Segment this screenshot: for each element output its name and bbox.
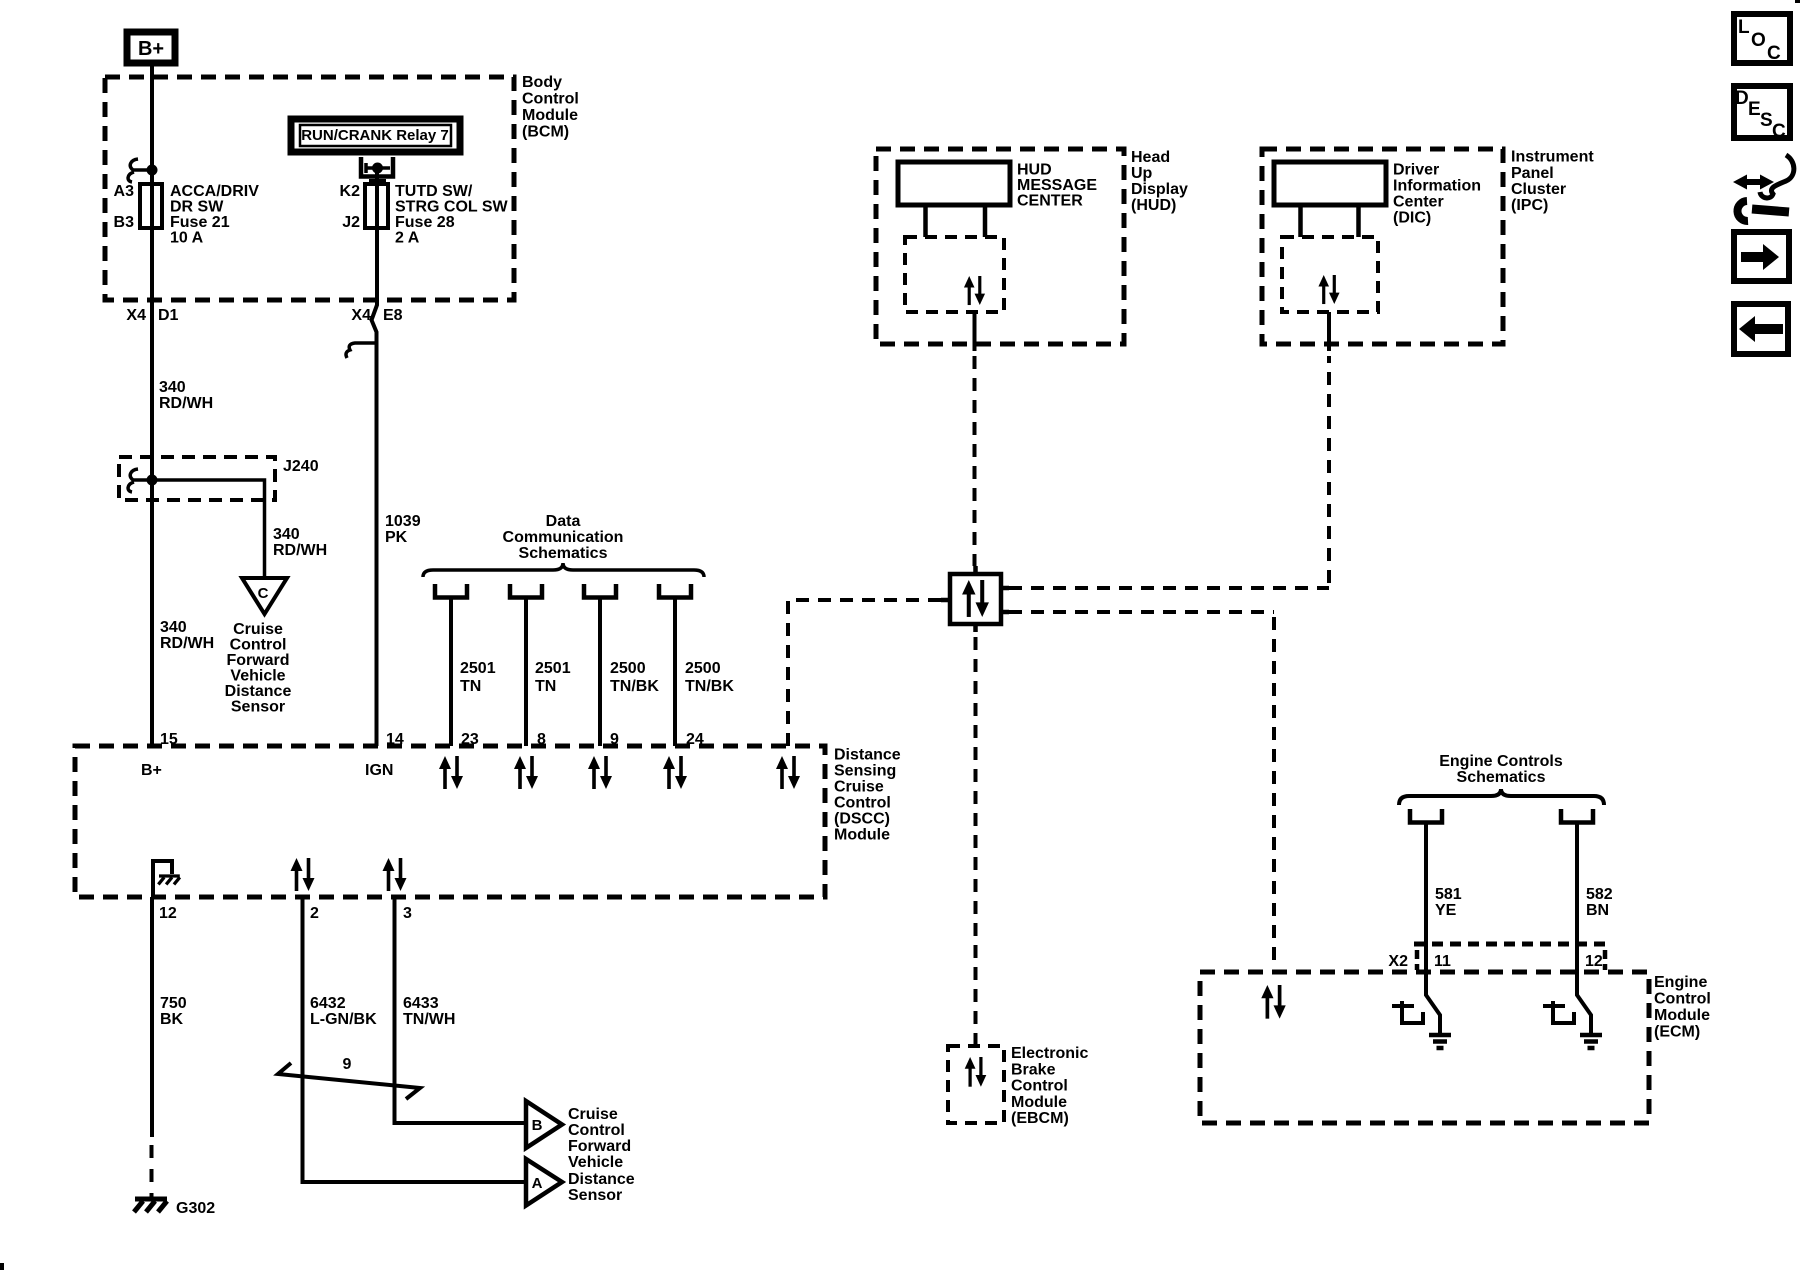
svg-text:Data: Data [546, 513, 581, 530]
svg-text:9: 9 [343, 1056, 352, 1073]
wire label 2500 TN/BK (2) [685, 660, 734, 695]
svg-text:Cruise: Cruise [233, 621, 283, 638]
svg-text:Forward: Forward [226, 652, 289, 669]
svg-text:Brake: Brake [1011, 1061, 1056, 1078]
svg-text:750: 750 [160, 995, 187, 1012]
svg-text:O: O [1751, 30, 1766, 51]
label: Cruise Control Forward Vehicle Distance Sensor (A/B) [568, 1106, 635, 1204]
relay contact symbol under RUN/CRANK relay [361, 157, 393, 181]
off-page connector A triangle [526, 1159, 562, 1206]
stub curl below X4/E8 [346, 343, 375, 358]
svg-text:12: 12 [159, 905, 177, 922]
svg-text:Head: Head [1131, 149, 1170, 166]
svg-text:Up: Up [1131, 165, 1153, 182]
svg-text:Control: Control [568, 1122, 625, 1139]
svg-text:Control: Control [522, 91, 579, 108]
wire 581 YE [1426, 824, 1440, 1033]
svg-text:(BCM): (BCM) [522, 124, 569, 141]
module box: Distance Sensing Cruise Control (DSCC) Module [75, 746, 825, 897]
wire label 582 BN [1586, 886, 1613, 919]
svg-text:X4: X4 [351, 307, 371, 324]
svg-text:DR SW: DR SW [170, 199, 224, 216]
wire label 750 BK [160, 995, 187, 1028]
svg-text:Module: Module [834, 827, 890, 844]
svg-text:A: A [532, 1175, 543, 1192]
svg-text:Instrument: Instrument [1511, 149, 1594, 166]
wire 2501 TN (pin 23) [449, 599, 453, 746]
junction dot node (152,170) [147, 165, 158, 176]
label: Distance Sensing Cruise Control (DSCC) Module [834, 747, 901, 844]
wire label 2500 TN/BK (1) [610, 660, 659, 695]
svg-text:A3: A3 [114, 183, 135, 200]
svg-text:ACCA/DRIV: ACCA/DRIV [170, 183, 259, 200]
serial data arrows ECM [1261, 985, 1285, 1019]
svg-text:C: C [1767, 43, 1781, 64]
wire 2500 TN/BK (pin 9) [598, 599, 602, 746]
svg-text:IGN: IGN [365, 762, 393, 779]
svg-text:Display: Display [1131, 181, 1188, 198]
svg-text:HUD: HUD [1017, 162, 1052, 179]
label: Engine Control Module (ECM) [1654, 974, 1711, 1041]
svg-text:Distance: Distance [834, 747, 901, 764]
svg-text:(EBCM): (EBCM) [1011, 1110, 1069, 1127]
power terminal B+ [127, 32, 175, 63]
ECM internal ground pin 12 [1580, 1035, 1602, 1048]
wire label 1039 PK [385, 513, 421, 546]
wire: HUD serial data lead [973, 312, 977, 351]
DIC connector dashed box [1282, 237, 1378, 312]
svg-text:Control: Control [1654, 991, 1711, 1008]
svg-text:Panel: Panel [1511, 165, 1554, 182]
svg-text:Forward: Forward [568, 1138, 631, 1155]
module box: Electronic Brake Control Module (EBCM) [948, 1046, 1004, 1123]
label: Driver Information Center (DIC) [1393, 162, 1481, 227]
svg-text:BK: BK [160, 1011, 184, 1028]
svg-text:X4: X4 [126, 307, 146, 324]
wire label 2501 TN (1) [460, 660, 496, 695]
svg-text:L-GN/BK: L-GN/BK [310, 1011, 377, 1028]
svg-text:2500: 2500 [685, 660, 721, 677]
svg-text:STRG COL SW: STRG COL SW [395, 199, 508, 216]
svg-text:(ECM): (ECM) [1654, 1024, 1700, 1041]
wire label 340 RD/WH (branch) [273, 526, 327, 559]
wire label 6433 TN/WH [403, 995, 455, 1028]
module box: Head Up Display (HUD) [876, 149, 1124, 344]
svg-text:Fuse 28: Fuse 28 [395, 214, 455, 231]
svg-text:TN/WH: TN/WH [403, 1011, 455, 1028]
serial data arrows pin 3 [383, 858, 407, 891]
svg-text:2500: 2500 [610, 660, 646, 677]
junction dot node J240 (152,480) [147, 475, 158, 486]
svg-text:Schematics: Schematics [1457, 769, 1546, 786]
module box: Engine Control Module (ECM) [1200, 972, 1649, 1123]
svg-text:X2: X2 [1388, 953, 1408, 970]
svg-text:340: 340 [273, 526, 300, 543]
wire: battery feed 340 circuit (x=152) [150, 66, 154, 746]
svg-text:RD/WH: RD/WH [160, 635, 214, 652]
serial data arrows pin 2 [291, 858, 315, 891]
wire 6433 TN/WH (pin 3 to connector B) [395, 897, 527, 1123]
svg-text:Module: Module [1011, 1094, 1067, 1111]
page speck top-right [1795, 0, 1800, 3]
svg-text:E8: E8 [383, 307, 403, 324]
connector stub 2 (pin 8) [510, 584, 542, 598]
ECM internal clip at pin 12 [1543, 1001, 1574, 1023]
svg-text:Center: Center [1393, 194, 1444, 211]
relay: RUN/CRANK Relay 7 [291, 119, 460, 152]
svg-text:Distance: Distance [225, 683, 292, 700]
HUD display pedestal [926, 205, 986, 237]
HUD connector dashed box [905, 237, 1004, 312]
serial data arrows pin 9 [588, 756, 612, 789]
svg-text:2501: 2501 [535, 660, 571, 677]
ECM internal clip at pin 11 [1392, 1001, 1423, 1023]
label: Body Control Module (BCM) [522, 74, 579, 141]
svg-text:Electronic: Electronic [1011, 1045, 1088, 1062]
svg-text:B3: B3 [114, 214, 135, 231]
connector stub 581 [1410, 809, 1442, 823]
connector X4 pin D1 labels [126, 307, 178, 324]
DIC display block [1274, 162, 1386, 205]
connector stub 3 (pin 9) [584, 584, 616, 598]
fuse F21 ACCA/DRIV DR SW Fuse 21 10A [140, 184, 162, 228]
wire label 340 RD/WH (upper) [159, 379, 213, 412]
svg-text:Vehicle: Vehicle [568, 1154, 623, 1171]
serial data arrows EBCM [965, 1057, 987, 1087]
svg-text:2 A: 2 A [395, 230, 420, 247]
svg-text:Sensor: Sensor [568, 1187, 622, 1204]
label: Engine Controls Schematics [1439, 753, 1563, 786]
wire: branch to connector C [152, 480, 265, 578]
serial data junction box [950, 574, 1001, 624]
connector X2 row [1414, 944, 1609, 970]
svg-text:J2: J2 [342, 214, 360, 231]
svg-text:B: B [532, 1117, 543, 1134]
svg-text:Cluster: Cluster [1511, 181, 1566, 198]
wire: DIC serial data lead [1327, 312, 1331, 351]
nav icon: diagnostic squiggle [1733, 155, 1794, 221]
wire label 340 RD/WH (lower) [160, 619, 214, 652]
svg-text:TUTD SW/: TUTD SW/ [395, 183, 473, 200]
wire label 2501 TN (2) [535, 660, 571, 695]
svg-text:10 A: 10 A [170, 230, 204, 247]
nav icon: next arrow box [1734, 232, 1789, 281]
HUD message center display block [898, 162, 1010, 205]
svg-text:340: 340 [159, 379, 186, 396]
svg-text:Body: Body [522, 74, 562, 91]
relay contact dot [372, 163, 383, 174]
wire label 581 YE [1435, 886, 1462, 919]
connector X4 pin E8 labels [351, 307, 402, 324]
module box: Body Control Module (BCM) [105, 77, 514, 300]
brace: engine controls schematics group [1399, 789, 1604, 805]
svg-text:(DSCC): (DSCC) [834, 811, 890, 828]
module box: Instrument Panel Cluster (IPC) [1262, 149, 1503, 344]
twisted pair marker 9 [278, 1063, 420, 1099]
svg-text:1039: 1039 [385, 513, 421, 530]
svg-text:Control: Control [230, 637, 287, 654]
svg-text:D: D [1735, 88, 1749, 109]
svg-text:Cruise: Cruise [568, 1106, 618, 1123]
svg-text:Module: Module [1654, 1007, 1710, 1024]
ground G302 [134, 1199, 167, 1212]
page speck bottom-left [0, 1263, 4, 1270]
serial data arrows pin 8 [514, 756, 538, 789]
svg-text:12: 12 [1585, 953, 1603, 970]
nav icon: LOC box [1734, 14, 1790, 64]
svg-text:Fuse 21: Fuse 21 [170, 214, 230, 231]
serial data arrows HUD [964, 276, 985, 305]
svg-text:B+: B+ [141, 762, 162, 779]
svg-text:D1: D1 [158, 307, 179, 324]
svg-text:K2: K2 [340, 183, 361, 200]
svg-text:(IPC): (IPC) [1511, 197, 1548, 214]
svg-text:C: C [258, 585, 269, 602]
connector stub 4 (pin 24) [659, 584, 691, 598]
junction curl at J240 [128, 469, 150, 492]
svg-text:CENTER: CENTER [1017, 193, 1083, 210]
svg-text:582: 582 [1586, 886, 1613, 903]
wire 750 BK (x=152) [150, 897, 154, 1137]
ECM internal ground pin 11 [1429, 1035, 1451, 1048]
label: Data Communication Schematics [503, 513, 624, 562]
svg-text:BN: BN [1586, 902, 1609, 919]
off-page connector C triangle [242, 578, 287, 614]
svg-text:3: 3 [403, 905, 412, 922]
chassis ground symbol (internal) [158, 876, 179, 884]
svg-text:Driver: Driver [1393, 162, 1439, 179]
label: HUD MESSAGE CENTER [1017, 162, 1097, 210]
splice J240 dashed box [119, 457, 275, 500]
svg-text:TN: TN [535, 678, 556, 695]
svg-text:Information: Information [1393, 178, 1481, 195]
svg-text:C: C [1772, 121, 1786, 142]
svg-text:PK: PK [385, 529, 408, 546]
svg-text:Vehicle: Vehicle [230, 668, 285, 685]
svg-text:2: 2 [310, 905, 319, 922]
serial data arrows pin 24 [663, 756, 687, 789]
svg-text:2501: 2501 [460, 660, 496, 677]
off-page connector B triangle [526, 1101, 562, 1148]
junction curl at fuse 21 feed [128, 159, 150, 182]
nav icon: DESC box [1734, 86, 1790, 142]
connector stub 1 (pin 23) [435, 584, 467, 598]
svg-text:L: L [1738, 17, 1750, 38]
serial data arrows DIC [1318, 275, 1339, 304]
svg-text:MESSAGE: MESSAGE [1017, 177, 1097, 194]
svg-text:G302: G302 [176, 1200, 215, 1217]
serial data arrows DSCC bus [776, 756, 800, 789]
svg-text:11: 11 [1434, 953, 1451, 970]
label: Electronic Brake Control Module (EBCM) [1011, 1045, 1088, 1127]
svg-text:YE: YE [1435, 902, 1457, 919]
svg-text:(DIC): (DIC) [1393, 210, 1431, 227]
wire 2500 TN/BK (pin 24) [673, 599, 677, 746]
svg-text:TN/BK: TN/BK [610, 678, 659, 695]
nav icon: previous arrow box [1734, 304, 1788, 354]
wire 6432 L-GN/BK (pin 2 to connector A) [303, 897, 527, 1182]
svg-text:Communication: Communication [503, 529, 624, 546]
svg-text:Control: Control [834, 795, 891, 812]
svg-text:RD/WH: RD/WH [159, 395, 213, 412]
fuse F28 TUTD SW/STRG COL SW Fuse 28 2A [365, 184, 388, 228]
svg-text:Engine: Engine [1654, 974, 1707, 991]
svg-text:TN: TN [460, 678, 481, 695]
svg-text:Engine Controls: Engine Controls [1439, 753, 1563, 770]
wire 750 BK interrupted dashes [150, 1145, 154, 1197]
svg-text:Control: Control [1011, 1078, 1068, 1095]
label: Cruise Control Forward Vehicle Distance Sensor (C) [225, 621, 292, 716]
wire: TUTD SW feed 1039 circuit (x=377) [372, 168, 378, 746]
svg-text:E: E [1748, 99, 1761, 120]
internal ground loop at pin 12 [153, 861, 172, 897]
svg-text:6432: 6432 [310, 995, 346, 1012]
svg-text:Distance: Distance [568, 1171, 635, 1188]
svg-text:(HUD): (HUD) [1131, 197, 1176, 214]
dashed bus: junction to ECM [1009, 612, 1274, 967]
svg-text:Sensing: Sensing [834, 763, 896, 780]
svg-text:Sensor: Sensor [231, 699, 285, 716]
dashed bus: HUD to junction [973, 356, 977, 566]
svg-text:B+: B+ [138, 38, 164, 60]
svg-text:581: 581 [1435, 886, 1462, 903]
svg-text:TN/BK: TN/BK [685, 678, 734, 695]
svg-text:S: S [1760, 110, 1773, 131]
junction box arrows [962, 580, 989, 617]
brace: data communication schematics group [423, 563, 704, 577]
wire label 6432 L-GN/BK [310, 995, 377, 1028]
wire 582 BN [1577, 824, 1591, 1033]
svg-text:340: 340 [160, 619, 187, 636]
pin number labels on DSCC top edge [160, 731, 704, 748]
dashed bus: DSCC to junction [788, 600, 941, 746]
svg-text:Module: Module [522, 107, 578, 124]
connector stub 582 [1561, 809, 1593, 823]
junction box stubs [941, 566, 1009, 632]
label: Head Up Display (HUD) [1131, 149, 1188, 214]
dashed bus: junction to IPC [1009, 356, 1329, 588]
svg-text:RUN/CRANK Relay 7: RUN/CRANK Relay 7 [301, 127, 449, 144]
DIC display pedestal [1301, 205, 1359, 237]
label: Instrument Panel Cluster (IPC) [1511, 149, 1594, 215]
svg-text:Schematics: Schematics [519, 545, 608, 562]
serial data arrows pin 23 [439, 756, 463, 789]
svg-text:Cruise: Cruise [834, 779, 884, 796]
svg-text:J240: J240 [283, 458, 319, 475]
svg-text:6433: 6433 [403, 995, 439, 1012]
label: fuse 21 [170, 183, 259, 247]
label: fuse 28 [395, 183, 508, 247]
wire 2501 TN (pin 8) [524, 599, 528, 746]
dashed bus: junction to EBCM [974, 637, 978, 1046]
svg-text:RD/WH: RD/WH [273, 542, 327, 559]
